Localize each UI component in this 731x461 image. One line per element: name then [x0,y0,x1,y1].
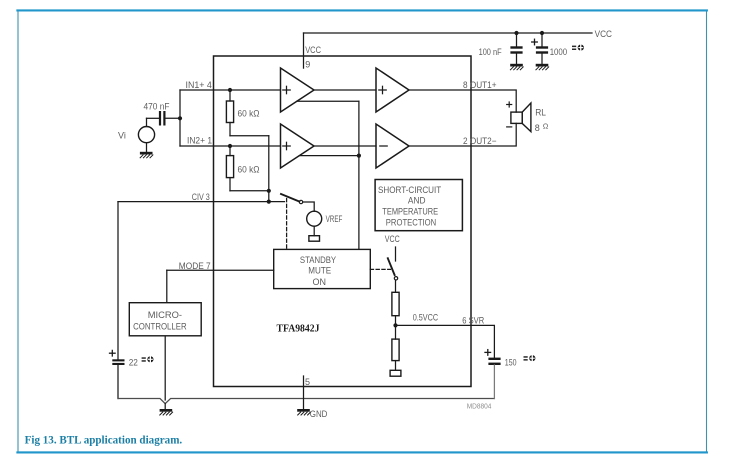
op-amp A3 [376,68,409,112]
svg-text:AND: AND [408,196,426,206]
svg-text:IN1+ 4: IN1+ 4 [186,80,212,90]
wire microcontroller to ground [164,337,166,400]
pin label IN1+ 4 [186,80,212,90]
label Vi [118,131,126,141]
value label 60 kOhm R1 [238,108,260,118]
svg-text:TEMPERATURE: TEMPERATURE [382,207,438,217]
junction IN1 tap [228,88,232,92]
terminal divider bottom [390,370,401,376]
pin label CIV 3 [192,192,210,202]
dashed link switch to standby [286,199,288,250]
svg-text:MODE 7: MODE 7 [179,261,211,271]
svg-text:8: 8 [535,123,540,133]
junction VCC 1000uF [540,31,544,35]
ground under 100nF [510,64,523,70]
svg-text:Vi: Vi [118,131,126,141]
value label 150 uF [505,355,536,368]
net label VCC top [595,29,613,39]
junction input split [178,116,182,120]
svg-text:SHORT-CIRCUIT: SHORT-CIRCUIT [378,185,442,195]
op-amp A2 [281,124,315,168]
svg-text:VREF: VREF [326,214,343,224]
pin label IN2+ 1 [187,136,212,146]
svg-text:150: 150 [505,357,517,367]
svg-text:PROTECTION: PROTECTION [386,217,436,227]
ground GND pin5 [297,409,310,415]
pin number 5 [305,377,310,387]
op-amp A1 [281,68,315,112]
pin label 8 OUT1+ [463,80,497,90]
svg-text:1000: 1000 [550,47,568,57]
label MICRO-CONTROLLER [133,310,187,331]
wire R1 bottom [230,135,269,137]
wire OUT1 [409,90,516,112]
capacitor C2 22 uF [110,350,125,398]
svg-text:8 OUT1+: 8 OUT1+ [463,80,497,90]
resistor R3 divider top [392,280,399,339]
junction resistor common on CIV [267,200,271,204]
label VCC pin9 [305,45,321,55]
junction VCC 100nF [514,31,518,35]
junction divider mid [393,323,397,327]
switch S1 mode [281,194,303,204]
IC outline U1 TFA9842J [214,56,472,387]
svg-text:5: 5 [305,377,310,387]
wire SVR [396,325,495,357]
wire VCC feed to switch [395,247,397,261]
ground symbol bottom left [160,404,173,415]
wire OUT2 [409,123,516,146]
svg-text:STANDBY: STANDBY [300,255,336,265]
value label 1000 uF [550,44,584,57]
svg-text:Ω: Ω [543,121,549,130]
value label 22 uF [129,356,154,368]
wire MODE [167,269,274,271]
svg-text:MD8804: MD8804 [467,402,492,411]
svg-text:ON: ON [313,277,327,287]
wire CIV [118,201,285,203]
pin label 6 SVR [462,316,484,326]
wire IN1 [180,89,281,91]
protection box [375,180,462,231]
label VREF [326,214,343,224]
wire feedback A1 tap [297,100,359,102]
wire switch to VREF [303,202,314,211]
svg-text:100 nF: 100 nF [479,47,502,57]
pin 5 GND [303,376,305,409]
svg-text:22: 22 [129,358,138,368]
microcontroller box [129,303,201,336]
terminal VREF [309,236,320,242]
net label VCC internal [385,234,400,244]
source VREF [307,211,322,236]
wire 150uF to ground rail [493,365,495,399]
switch S2 standby [388,258,398,280]
label MD8804 [467,402,492,411]
wire feedback vertical [358,101,360,249]
svg-text:GND: GND [310,409,328,419]
svg-text:Fig 13. BTL application diagra: Fig 13. BTL application diagram. [25,434,183,446]
label GND [310,409,328,419]
svg-text:VCC: VCC [305,45,321,55]
wire R2 bottom [230,190,269,192]
label SHORT-CIRCUIT AND TEMPERATURE PROTECTION [378,185,442,227]
svg-text:470 nF: 470 nF [144,101,170,111]
wire A1 to A3 [314,89,376,91]
label STANDBY MUTE ON [300,255,336,287]
wire cap to split [166,117,181,119]
resistor R1 60 kOhm [226,90,233,136]
value label 60 kOhm R2 [238,164,260,174]
svg-text:MUTE: MUTE [308,266,331,276]
wire VCC rail [304,32,593,34]
pin label 2 OUT2- [463,136,497,146]
resistor R2 60 kOhm [226,146,233,191]
dashed link standby to switch [370,268,390,270]
wire A2 to A4 [314,145,376,147]
ground rail bottom [118,399,494,404]
value label 100 nF [479,47,502,57]
pin number 9 [305,60,310,70]
pin label MODE 7 [179,261,211,271]
value label 470 nF [144,101,170,111]
svg-text:9: 9 [305,60,310,70]
ground under Vi [140,152,153,158]
capacitor C1 470 nF [147,111,166,126]
resistor R4 divider bottom [392,339,399,370]
label RL 8 Ohm [535,107,549,133]
svg-text:VCC: VCC [595,29,613,39]
svg-text:IN2+ 1: IN2+ 1 [187,136,212,146]
svg-text:RL: RL [535,107,546,117]
wire resistor common vertical [268,136,270,202]
ground under 1000uF [536,64,549,70]
source Vi [138,118,154,152]
speaker RL [507,102,531,132]
capacitor C4 1000 uF [532,33,548,64]
wire feedback A2 tap [299,155,359,157]
junction R2 tee [267,189,271,193]
svg-text:6 SVR: 6 SVR [462,316,484,326]
svg-text:TFA9842J: TFA9842J [277,324,320,335]
capacitor C5 150 uF [485,350,501,365]
pin 9 VCC [303,33,305,68]
wire CIV left vertical [117,202,119,360]
svg-text:MICRO-: MICRO- [148,310,182,320]
wire MODE down to microcontroller [166,270,168,301]
wire input split vertical [179,90,181,146]
svg-text:0.5VCC: 0.5VCC [413,313,439,323]
svg-text:CONTROLLER: CONTROLLER [133,321,187,331]
capacitor C3 100 nF [510,33,522,64]
svg-text:2 OUT2−: 2 OUT2− [463,136,497,146]
svg-text:60 kΩ: 60 kΩ [238,108,260,118]
wire IN2 [180,145,281,147]
net label 0.5VCC [413,313,439,323]
svg-text:CIV 3: CIV 3 [192,192,210,202]
junction IN2 tap [228,144,232,148]
label TFA9842J [277,324,320,335]
op-amp A4 [376,124,409,168]
svg-text:VCC: VCC [385,234,400,244]
standby logic box [274,249,371,288]
svg-text:60 kΩ: 60 kΩ [238,164,260,174]
junction feedback [357,154,361,158]
caption Fig 13 [25,434,183,446]
